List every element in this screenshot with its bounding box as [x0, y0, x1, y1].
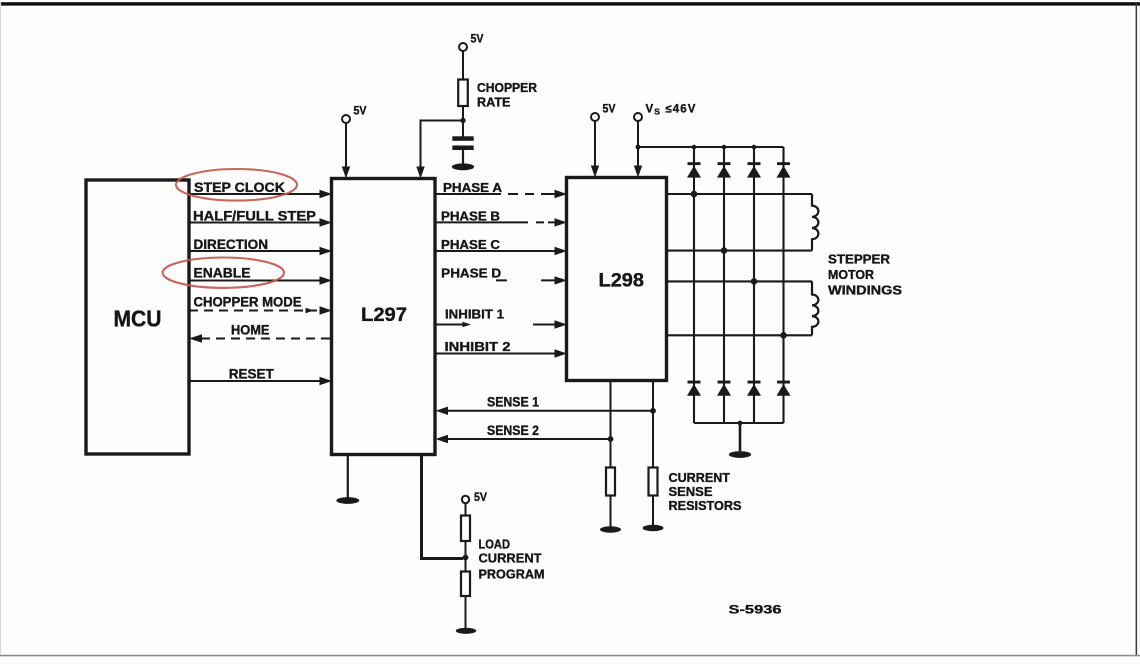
junction dot column1 top bus: [692, 145, 697, 150]
svg-text:5V: 5V: [474, 492, 487, 504]
svg-text:CURRENT: CURRENT: [479, 552, 542, 566]
wire diode column 2: [723, 147, 725, 423]
wire L298 SENSE A pin down: [610, 381, 612, 468]
svg-text:L298: L298: [599, 271, 645, 292]
wire lower diode bus: [694, 422, 784, 424]
Vs supply terminal above L298: [634, 113, 642, 121]
svg-text:SENSE 2: SENSE 2: [487, 423, 539, 438]
svg-text:WINDINGS: WINDINGS: [828, 284, 902, 298]
arrowhead SENSE 2 into L297 (points left): [436, 435, 449, 443]
arrowhead Vs into L298 top: [634, 166, 642, 178]
svg-text:PROGRAM: PROGRAM: [479, 568, 545, 582]
MCU U1 block: [86, 180, 189, 454]
arrowhead HOME into MCU (points left): [189, 334, 202, 342]
wire R1 to node/capacitor C1: [462, 106, 464, 137]
arrowhead PHASE D into L298: [555, 276, 568, 284]
frame bottom border: [0, 655, 1140, 657]
wire CHOPPER MODE (dashed): [189, 310, 317, 312]
frame right border: [1136, 2, 1138, 656]
5V supply terminal above L298: [591, 113, 599, 121]
wire bus to ground stub: [739, 423, 742, 451]
junction dot bus/ground stub: [738, 421, 743, 426]
arrowhead ENABLE into L297: [320, 276, 333, 284]
junction dot column2 top bus: [722, 145, 727, 150]
junction dot OUT3/column3: [751, 278, 758, 285]
svg-text:5V: 5V: [354, 106, 367, 118]
svg-text:HOME: HOME: [231, 323, 270, 338]
sense resistor R4: [649, 468, 658, 496]
wire INHIBIT 1 (partial): [435, 324, 556, 326]
junction dot SENSE2 / sense resistor R3 node: [608, 436, 614, 442]
5V supply terminal (load current program): [462, 496, 469, 503]
arrowhead PHASE C into L298: [555, 247, 568, 255]
wire Vs flyback top bus: [638, 146, 784, 148]
resistor R5 (upper divider): [461, 516, 470, 542]
small mid arrowhead INHIBIT 1: [463, 322, 472, 328]
svg-text:VS ≤46V: VS ≤46V: [646, 104, 697, 117]
arrowhead DIRECTION into L297: [320, 247, 333, 255]
svg-text:STEP CLOCK: STEP CLOCK: [194, 180, 285, 195]
wire 5V to L298 Vss: [594, 121, 596, 167]
flyback diode D6 (lower, to GND): [718, 381, 731, 384]
svg-text:RATE: RATE: [477, 96, 511, 110]
wire DIRECTION: [189, 250, 321, 252]
arrowhead SENSE 1 into L297 (points left): [436, 407, 449, 415]
wire diode column 3: [753, 147, 755, 423]
wire HALF/FULL STEP: [189, 222, 321, 224]
wire Vs to L298 Vs pin: [637, 121, 639, 167]
svg-text:CHOPPER: CHOPPER: [477, 81, 537, 95]
5V supply terminal (chopper rate): [459, 43, 467, 51]
wire L298 OUT2 to winding: [667, 250, 813, 252]
motor winding L1: [812, 194, 818, 251]
capacitor C1 bottom plate: [452, 146, 473, 151]
flyback diode D2 (up, to Vs): [718, 162, 731, 165]
wire 5V to L297 Vcc: [345, 123, 347, 168]
wire diode column 1: [693, 147, 695, 423]
svg-text:5V: 5V: [603, 104, 616, 116]
wire STEP CLOCK: [189, 193, 321, 195]
arrowhead 5V into L297 top: [342, 167, 350, 179]
arrowhead INHIBIT 2 into L298: [555, 349, 568, 357]
ground (sense resistor R4): [643, 525, 664, 531]
svg-text:S-5936: S-5936: [729, 603, 782, 617]
ground (chopper RC): [452, 163, 474, 170]
svg-text:INHIBIT 1: INHIBIT 1: [445, 307, 504, 322]
red highlight ellipse around STEP CLOCK: [176, 169, 297, 201]
wire L298 OUT1 to winding: [667, 193, 813, 195]
junction dot SENSE1 / sense resistor R4 node: [650, 408, 656, 414]
svg-text:PHASE C: PHASE C: [441, 237, 501, 252]
ground (L297): [336, 497, 359, 504]
svg-text:MOTOR: MOTOR: [828, 268, 874, 282]
junction dot OUT1/column1: [691, 191, 698, 198]
wire L298 OUT3 to winding: [667, 280, 813, 282]
svg-text:MCU: MCU: [114, 306, 162, 332]
arrowhead HALF/FULL STEP into L297: [320, 218, 333, 226]
wire 5V to resistor R1: [462, 51, 464, 79]
wire diode column 4: [782, 147, 784, 423]
svg-text:PHASE D: PHASE D: [441, 265, 501, 280]
arrowhead RESET into L297: [320, 377, 333, 385]
junction dot Vs / flyback bus: [636, 145, 641, 150]
wire R4 to ground: [652, 496, 654, 526]
arrowhead CHOPPER MODE into L297: [320, 306, 333, 314]
wire R6 to ground: [465, 596, 467, 628]
junction dot column3 top bus: [752, 145, 757, 150]
svg-text:SENSE 1: SENSE 1: [487, 395, 539, 410]
junction node R1/C1/osc: [460, 118, 465, 123]
svg-text:PHASE A: PHASE A: [443, 180, 503, 195]
svg-text:RESET: RESET: [229, 367, 275, 382]
sense resistor R3: [606, 468, 615, 496]
svg-text:DIRECTION: DIRECTION: [194, 237, 269, 252]
motor winding L2: [812, 281, 818, 335]
L297 U2 block: [332, 179, 436, 455]
ground (sense resistor R3): [600, 526, 621, 532]
svg-text:5V: 5V: [471, 34, 484, 46]
junction dot Vref divider node: [463, 555, 469, 561]
resistor R1 CHOPPER RATE: [458, 80, 468, 107]
wire SENSE 2: [447, 438, 611, 440]
wire C1 to ground: [462, 150, 464, 164]
flyback diode D3 (up, to Vs): [748, 162, 761, 165]
ground (load current program): [456, 628, 476, 634]
wire HOME (dashed): [201, 338, 332, 340]
ground (diode bus): [729, 451, 751, 458]
wire node to L297 OSC pin: [421, 121, 463, 169]
flyback diode D5 (lower, to GND): [688, 381, 701, 384]
flyback diode D4 (up, to Vs): [777, 162, 790, 165]
wire ENABLE: [189, 280, 321, 282]
flyback diode D1 (up, to Vs): [688, 162, 701, 165]
svg-text:L297: L297: [361, 305, 407, 326]
wire INHIBIT 2: [435, 353, 556, 355]
svg-text:SENSE: SENSE: [669, 485, 713, 499]
arrowhead 5V into L298 top: [591, 166, 599, 178]
arrowhead STEP CLOCK into L297 pin CLOCK: [320, 190, 333, 198]
svg-text:CHOPPER MODE: CHOPPER MODE: [194, 295, 302, 310]
wire R5 to node: [465, 541, 467, 572]
wire L297 GND stub: [347, 455, 349, 498]
arrowhead INHIBIT 1 into L298: [555, 320, 568, 328]
svg-text:PHASE B: PHASE B: [441, 208, 500, 223]
arrowhead PHASE A into L298: [555, 190, 568, 198]
arrowhead OSC wire into L297 top: [416, 167, 424, 179]
frame top border: [0, 2, 1140, 5]
wire L298 OUT4 to winding: [667, 334, 813, 336]
svg-text:RESISTORS: RESISTORS: [669, 499, 742, 513]
wire R3 to ground: [610, 496, 612, 528]
5V supply terminal above L297: [342, 115, 350, 123]
flyback diode D7 (lower, to GND): [748, 381, 761, 384]
wire PHASE C: [435, 250, 556, 252]
resistor R6 (lower divider): [461, 572, 470, 597]
wire PHASE B: [435, 221, 556, 223]
arrowhead PHASE B into L298: [555, 218, 568, 226]
svg-text:STEPPER: STEPPER: [828, 253, 890, 267]
flyback diode D8 (lower, to GND): [777, 381, 790, 384]
svg-text:HALF/FULL STEP: HALF/FULL STEP: [193, 209, 316, 224]
svg-text:ENABLE: ENABLE: [194, 266, 251, 281]
L298 U3 block: [567, 178, 667, 381]
wire PHASE D (faded, partial): [496, 279, 556, 281]
small mid arrowhead CHOPPER MODE: [306, 308, 315, 314]
svg-text:LOAD: LOAD: [479, 538, 511, 552]
svg-text:CURRENT: CURRENT: [669, 471, 731, 485]
wire PHASE A (broken scan segments): [435, 193, 556, 195]
frame left border: [0, 2, 1, 656]
red highlight ellipse around ENABLE: [163, 258, 284, 288]
wire RESET: [189, 380, 321, 382]
wire 5V to resistor R5: [465, 503, 467, 515]
wire SENSE 1: [447, 410, 653, 412]
svg-text:INHIBIT 2: INHIBIT 2: [445, 339, 511, 354]
junction dot OUT2/column2: [721, 247, 728, 254]
junction dot OUT4/column4: [780, 332, 787, 339]
wire L298 SENSE B pin down: [652, 381, 654, 468]
wire L297 Vref to load current node: [422, 455, 464, 559]
capacitor C1 top plate: [452, 136, 473, 141]
